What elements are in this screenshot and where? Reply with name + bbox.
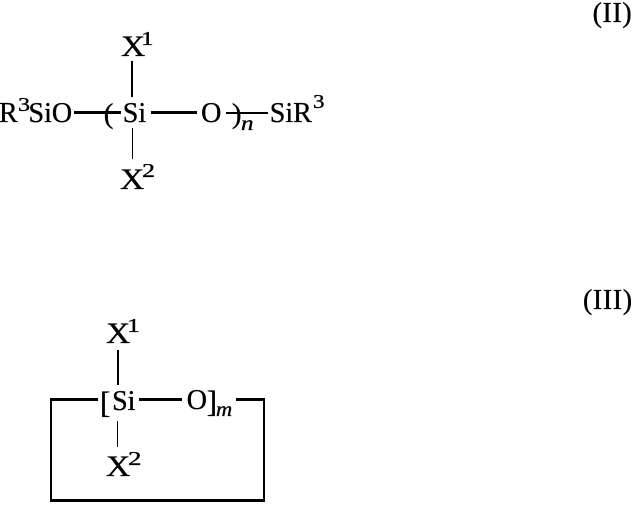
oxygen atom O (II): [201, 100, 221, 128]
silicon atom Si (III): [112, 388, 135, 416]
formula label (II): [593, 0, 632, 28]
opening bracket of repeat unit (III): [100, 387, 110, 418]
vertical bond X1-Si (II): [131, 61, 133, 97]
bond R3SiO to repeat unit (crosses paren): [74, 111, 121, 113]
silicon atom Si (II): [123, 100, 146, 128]
ring-closure wire: top-right segment: [236, 398, 265, 400]
superscript 1 of X1 (II): [141, 29, 154, 49]
substituent X2 of structure III: [106, 452, 130, 482]
substituent X1 of structure II: [121, 32, 145, 62]
vertical bond Si-X2 (III): [117, 421, 119, 446]
superscript 2 of X2 (III): [128, 449, 142, 469]
ring-closure wire: top-left segment: [50, 398, 98, 400]
subscript m (repeat count): [216, 400, 232, 420]
superscript 1 of X1 (III): [127, 316, 140, 336]
opening parenthesis of repeat unit (II): [104, 100, 114, 129]
substituent X2 of structure II: [120, 165, 144, 195]
ring-closure wire: bottom: [50, 499, 265, 502]
closing parenthesis of repeat unit (II): [232, 100, 242, 129]
ring-closure wire: right vertical: [263, 398, 265, 502]
bond from O through closing paren to SiR3: [226, 112, 269, 114]
bond Si-O (III): [139, 398, 183, 400]
superscript 3 of right R: [313, 92, 325, 112]
closing bracket of repeat unit (III): [207, 386, 217, 417]
oxygen atom O (III): [187, 387, 207, 415]
ring-closure wire: left vertical: [50, 398, 52, 502]
vertical bond X1-Si (III): [117, 350, 119, 385]
terminal group SiR3: SiR: [270, 100, 312, 128]
substituent X1 of structure III: [106, 319, 130, 349]
terminal group R3SiO: R: [0, 100, 18, 128]
terminal group R3SiO: SiO: [29, 100, 73, 128]
bond Si-O (II): [151, 111, 198, 113]
superscript 2 of X2 (II): [142, 161, 155, 181]
subscript n (repeat count): [241, 114, 254, 134]
superscript 3 of left R: [18, 95, 30, 115]
vertical bond Si-X2 (II): [132, 128, 134, 159]
formula label (III): [583, 287, 632, 315]
